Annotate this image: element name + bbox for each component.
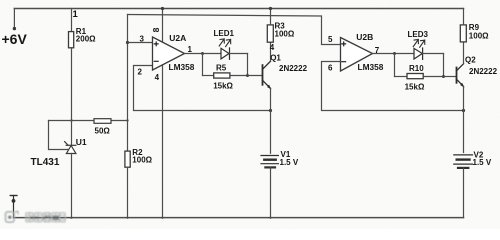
wire V2 minus to ground rail bbox=[463, 168, 465, 218]
svg-text:4: 4 bbox=[270, 43, 275, 52]
node pin8 rail junction bbox=[161, 7, 164, 10]
svg-text:1.5 V: 1.5 V bbox=[473, 158, 492, 167]
node ground terminal dot bbox=[12, 199, 16, 203]
wire R5 right lead bbox=[230, 75, 247, 77]
svg-text:6: 6 bbox=[328, 64, 333, 73]
wire R10 right lead bbox=[423, 76, 443, 78]
resistor R9 bbox=[460, 25, 466, 42]
svg-text:R10: R10 bbox=[409, 64, 424, 73]
svg-text:50Ω: 50Ω bbox=[95, 127, 111, 136]
wire U2A pin8 to rail bbox=[162, 9, 164, 42]
svg-text:100Ω: 100Ω bbox=[132, 156, 152, 165]
wire LED1 anode bbox=[203, 53, 222, 55]
svg-text:8: 8 bbox=[151, 27, 161, 32]
op-amp U2B minus sign bbox=[342, 61, 346, 63]
node divider junction bbox=[126, 119, 128, 121]
resistor R10 bbox=[407, 74, 423, 79]
TL431 U1 symbol bbox=[65, 142, 76, 154]
wire R9 top rail corner bbox=[463, 9, 465, 25]
wire LED1 right vertical bbox=[247, 54, 249, 76]
watermark text glyph boxes bbox=[26, 213, 65, 222]
node junction R1/50ohm/TL431 bbox=[70, 119, 72, 121]
wire V1 minus to ground rail bbox=[270, 167, 272, 218]
svg-text:100Ω: 100Ω bbox=[469, 31, 489, 40]
node pin3 junction bbox=[126, 41, 129, 44]
svg-text:+6V: +6V bbox=[2, 31, 28, 47]
node LED1 left node bbox=[201, 52, 204, 55]
svg-text:Q2: Q2 bbox=[465, 55, 476, 64]
transistor Q1 bbox=[263, 61, 271, 88]
wire Q1 emitter down to V1 bbox=[270, 88, 272, 153]
svg-text:LED3: LED3 bbox=[408, 30, 429, 39]
wire LED3 cathode bbox=[423, 53, 444, 55]
wire U2A pin3 stub bbox=[128, 42, 153, 44]
battery V2 bbox=[454, 155, 473, 168]
svg-text:2: 2 bbox=[138, 67, 143, 76]
node +6V terminal dot bbox=[13, 27, 16, 30]
diode LED1 bbox=[221, 48, 230, 59]
node R3 rail junction bbox=[269, 7, 272, 10]
wire LED1 cathode bbox=[230, 53, 248, 55]
transistor Q2 bbox=[457, 64, 464, 87]
wire +6V terminal drop bbox=[13, 9, 15, 29]
wire 50 ohm row bbox=[49, 120, 128, 122]
wire U2A pin4 to ground rail bbox=[162, 65, 164, 218]
op-amp U2B plus sign bbox=[342, 42, 346, 46]
node R5/base junction bbox=[246, 74, 249, 77]
wire TL431 ref loop bbox=[49, 121, 68, 150]
op-amp U2A plus sign bbox=[154, 42, 158, 46]
svg-text:Q1: Q1 bbox=[270, 53, 281, 62]
svg-text:15kΩ: 15kΩ bbox=[213, 82, 233, 91]
wire U2A pin2 feedback loop bbox=[134, 66, 271, 111]
diode LED3 bbox=[414, 48, 423, 59]
wire Q2 emitter down to V2 bbox=[463, 87, 465, 153]
resistor R2 bbox=[125, 151, 130, 167]
svg-text:100Ω: 100Ω bbox=[275, 29, 295, 38]
svg-text:5: 5 bbox=[328, 35, 333, 44]
svg-text:LM358: LM358 bbox=[169, 62, 195, 72]
wire U2B pin6 feedback loop bbox=[322, 62, 464, 111]
svg-text:U2B: U2B bbox=[356, 32, 373, 42]
node LED3 left node bbox=[393, 52, 396, 55]
wire U2B output to LED3 node bbox=[373, 53, 395, 55]
wire U2A output to LED1 node bbox=[185, 53, 203, 55]
node feedback/emitter junction left bbox=[269, 109, 272, 112]
wire Q1 base stub bbox=[248, 75, 263, 77]
svg-text:1: 1 bbox=[188, 45, 193, 54]
svg-text:4: 4 bbox=[155, 73, 160, 82]
svg-text:TL431: TL431 bbox=[31, 157, 60, 168]
svg-text:2N2222: 2N2222 bbox=[469, 67, 498, 76]
svg-text:1.5 V: 1.5 V bbox=[280, 158, 299, 167]
wire bottom ground rail bbox=[14, 217, 464, 219]
wire divider node column (R2 top / ref feed) bbox=[127, 15, 129, 152]
wire Q1 collector to R3 bbox=[270, 42, 272, 61]
LED1 emission arrows bbox=[219, 39, 231, 47]
wire R10 left lead bbox=[395, 76, 408, 78]
wire LED3 anode bbox=[395, 53, 415, 55]
wire R3 top to rail bbox=[270, 9, 272, 25]
wire R2 bottom to ground rail bbox=[127, 167, 129, 218]
wire TL431 anode to ground rail bbox=[71, 154, 73, 219]
wire top supply rail bbox=[14, 8, 463, 10]
resistor R1 bbox=[69, 32, 74, 48]
svg-text:LED1: LED1 bbox=[214, 29, 235, 38]
op-amp U2B bbox=[341, 38, 373, 72]
ground terminal bottom left bbox=[10, 196, 17, 218]
svg-text:3: 3 bbox=[140, 35, 145, 44]
resistor R5 bbox=[214, 73, 230, 78]
node R10/base junction bbox=[442, 75, 445, 78]
svg-text:1: 1 bbox=[73, 9, 79, 20]
battery V1 bbox=[261, 156, 278, 168]
node feedback/emitter junction right bbox=[462, 109, 465, 112]
node rail bottom junctions bbox=[70, 217, 271, 219]
wire Q2 collector to R9 bbox=[463, 42, 465, 64]
svg-text:U2A: U2A bbox=[169, 33, 186, 43]
op-amp U2A minus sign bbox=[154, 60, 158, 62]
svg-text:15kΩ: 15kΩ bbox=[405, 83, 425, 92]
wire LED3 right vertical bbox=[443, 54, 445, 77]
wire Q2 base stub bbox=[444, 76, 457, 78]
wire LED1 left vertical bbox=[202, 54, 204, 76]
wire R5 left lead bbox=[203, 75, 214, 77]
svg-text:R5: R5 bbox=[216, 63, 227, 72]
svg-text:200Ω: 200Ω bbox=[76, 35, 96, 44]
wire R1 column upper bbox=[71, 9, 73, 32]
svg-text:LM358: LM358 bbox=[358, 62, 384, 72]
LED3 emission arrows bbox=[413, 40, 425, 48]
svg-text:7: 7 bbox=[375, 46, 380, 55]
wire LED3 left vertical bbox=[394, 54, 396, 77]
watermark logo bbox=[6, 211, 66, 222]
wire reference feed to U2B pin5 bbox=[128, 15, 341, 45]
resistor R3 bbox=[267, 25, 273, 42]
watermark dark strokes along rail bbox=[30, 216, 59, 219]
resistor 50ohm bbox=[94, 119, 111, 124]
svg-text:2N2222: 2N2222 bbox=[279, 64, 308, 73]
wire R1 bottom to TL431 cathode bbox=[71, 48, 73, 145]
svg-text:U1: U1 bbox=[76, 137, 87, 147]
op-amp U2A bbox=[153, 37, 185, 70]
